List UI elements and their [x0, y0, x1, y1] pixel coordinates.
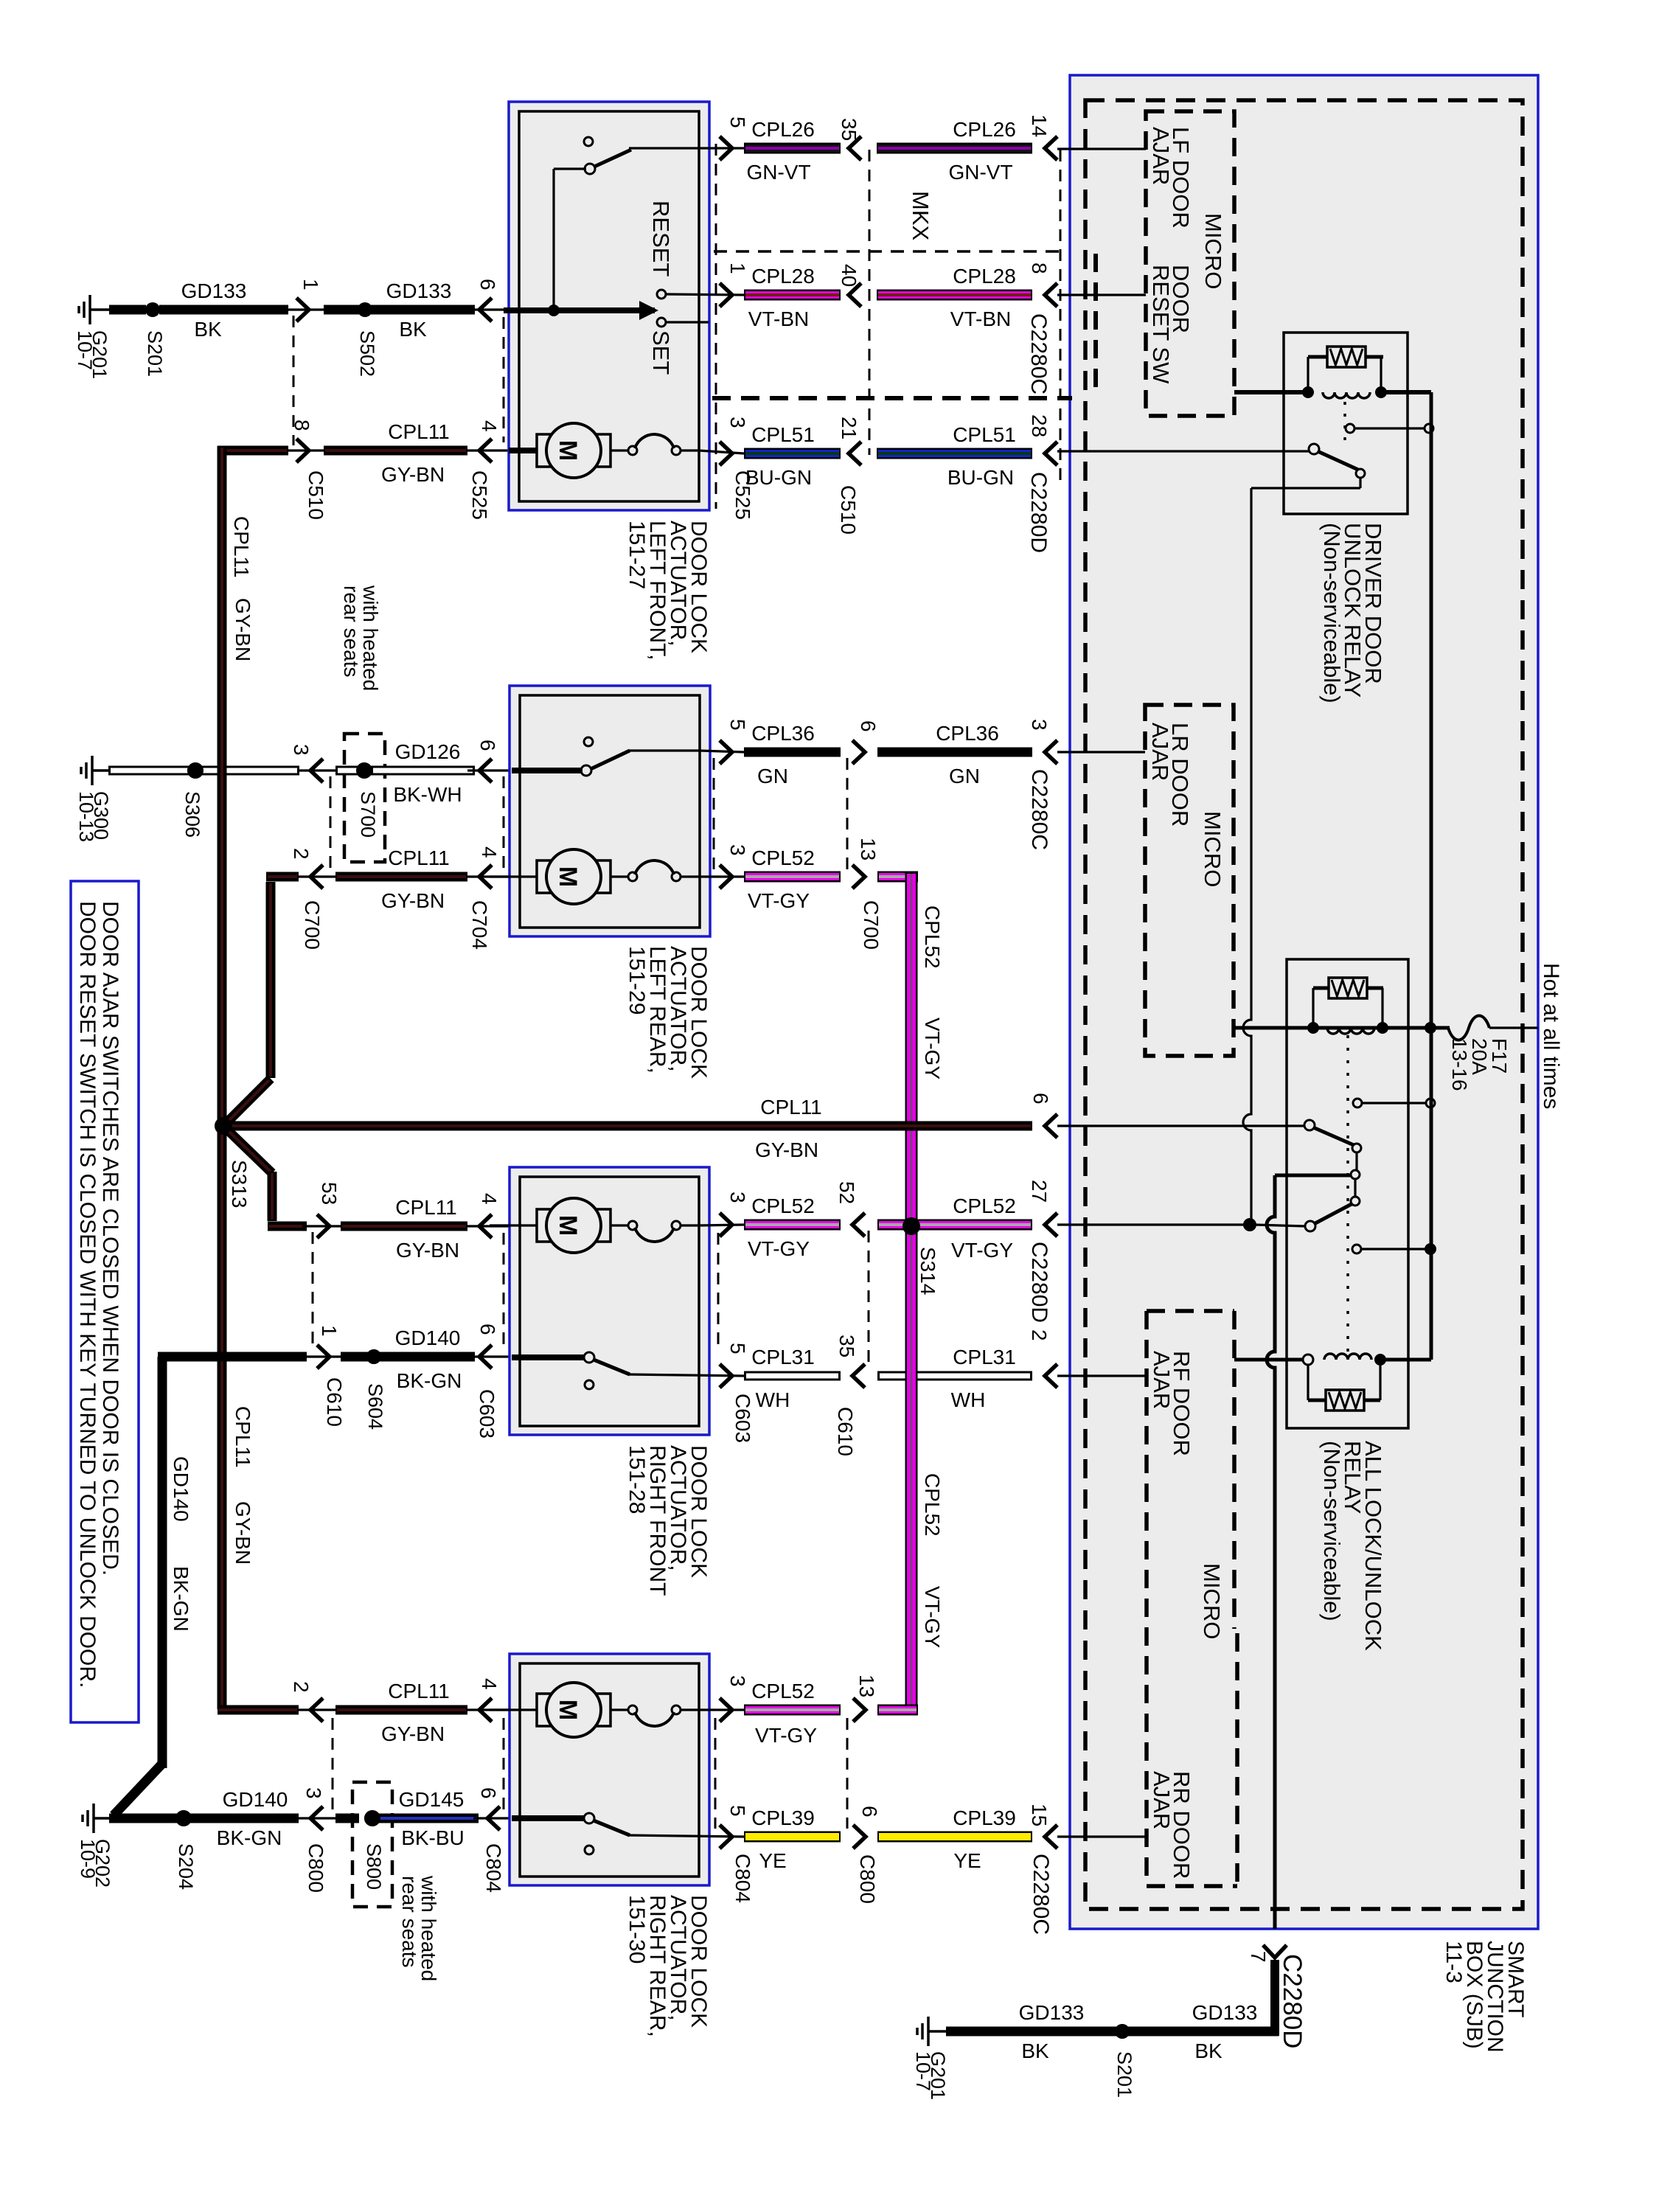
- micro box RF DOOR AJAR: [1147, 1309, 1234, 1313]
- wire CPL31 WH from RF actuator: [720, 1364, 732, 1388]
- wire CPL11 GY-BN main to SJB: [228, 1121, 1032, 1131]
- svg-text:MICRO: MICRO: [1200, 811, 1225, 887]
- svg-text:5: 5: [726, 1805, 749, 1817]
- splice S201 bottom: [1115, 2024, 1130, 2039]
- svg-text:VT-GY: VT-GY: [921, 1018, 944, 1079]
- connector dashed C700 left: [330, 776, 332, 872]
- svg-text:C804: C804: [482, 1843, 505, 1893]
- svg-text:27: 27: [1028, 1180, 1051, 1203]
- svg-text:C804: C804: [731, 1854, 754, 1903]
- svg-text:C800: C800: [305, 1843, 327, 1893]
- svg-text:BK: BK: [194, 318, 222, 341]
- ground G202: [92, 1804, 95, 1833]
- all relay NO tie bar circle: [1351, 1170, 1360, 1179]
- svg-text:15: 15: [1028, 1804, 1051, 1826]
- all relay lower coil terminal left: [1303, 1354, 1313, 1365]
- connector dashed line C2280C left of SJB: [1060, 150, 1062, 487]
- driver relay coil feed wire from micro: [1234, 390, 1311, 394]
- connector dashed C603 right: [717, 1233, 720, 1352]
- svg-text:C510: C510: [305, 470, 327, 520]
- svg-text:40: 40: [838, 264, 860, 287]
- svg-text:151-27: 151-27: [625, 521, 649, 589]
- svg-text:1: 1: [299, 279, 322, 291]
- driver relay NC contact: [1346, 424, 1354, 433]
- svg-text:GD145: GD145: [399, 1788, 465, 1811]
- wire GD133 BK S201 to S502: [159, 305, 288, 315]
- splice S700 dot overlay: [356, 762, 372, 779]
- svg-text:GN-VT: GN-VT: [746, 161, 810, 184]
- svg-text:CPL28: CPL28: [953, 265, 1016, 288]
- svg-text:C2280C: C2280C: [1029, 1854, 1053, 1935]
- driver relay NO contact: [1356, 469, 1365, 478]
- svg-text:SET: SET: [648, 330, 674, 375]
- pin 7 arrow out of SJB: [1263, 1945, 1287, 1958]
- svg-text:VT-GY: VT-GY: [748, 1237, 810, 1260]
- svg-text:DOOR AJAR SWITCHES ARE CLOSED: DOOR AJAR SWITCHES ARE CLOSED WHEN DOOR …: [98, 901, 122, 1576]
- micro box LR DOOR AJAR: [1145, 705, 1234, 1056]
- dashed separator below CPL26 row: [714, 250, 1062, 253]
- wire CPL26 GN-VT segment 1: [720, 136, 732, 160]
- pin connector arrow 2 act4: [298, 1708, 339, 1711]
- driver relay actuation dotted link: [1343, 402, 1346, 442]
- splice box S800: [352, 1782, 392, 1907]
- all relay switch A blade: [1313, 1127, 1354, 1145]
- svg-text:BK-GN: BK-GN: [170, 1566, 192, 1632]
- svg-text:2: 2: [290, 1681, 313, 1693]
- svg-text:BK-BU: BK-BU: [401, 1826, 465, 1849]
- connector dashed C510 left: [293, 316, 295, 445]
- connector dashed C700 right: [846, 758, 849, 872]
- door lock actuator right front box: [509, 1167, 709, 1435]
- LR actuator motor: [490, 875, 539, 877]
- wire CPL11 GY-BN to actuator 3: [341, 1222, 467, 1231]
- vertical CPL11 GY-BN bus: [218, 446, 227, 1709]
- svg-text:S604: S604: [364, 1383, 386, 1430]
- svg-text:M: M: [554, 440, 582, 461]
- wire CPL11 GY-BN corner from vertical bus: [218, 446, 288, 456]
- wire GD133 BK S502 to actuator: [324, 305, 360, 315]
- svg-text:(Non-serviceable): (Non-serviceable): [1319, 1441, 1345, 1621]
- junction F17 on hot bus: [1425, 1022, 1436, 1034]
- svg-text:CPL11: CPL11: [388, 846, 450, 869]
- connector dashed C804 left: [503, 1718, 505, 1812]
- wire CPL36 GN segment 1: [720, 740, 732, 764]
- svg-text:8: 8: [291, 420, 313, 431]
- svg-text:C610: C610: [834, 1407, 857, 1456]
- driver relay NC line to hot bus: [1355, 427, 1425, 429]
- connector dashed C704 right: [713, 758, 715, 870]
- svg-text:GY-BN: GY-BN: [232, 598, 254, 661]
- pin connector arrow 4 act4: [467, 1708, 512, 1711]
- svg-text:C603: C603: [731, 1394, 754, 1443]
- junction driver output to CPL52: [1243, 1218, 1256, 1231]
- wire CPL52 bus over CPL31 crossing: [905, 1367, 918, 1385]
- wire GD126 BK-WH S700 to actuator: [335, 766, 359, 776]
- all relay lower coil to hot bus: [1380, 1358, 1431, 1362]
- wire CPL52 VT-GY from LR actuator: [720, 865, 732, 888]
- svg-text:6: 6: [1029, 1093, 1052, 1105]
- svg-text:VT-GY: VT-GY: [951, 1239, 1013, 1262]
- splice box S700: [344, 734, 385, 862]
- wire GD133 BK ground to S201: [109, 305, 146, 315]
- ground G201 left: [88, 295, 91, 324]
- svg-text:YE: YE: [759, 1849, 786, 1872]
- splice S201: [145, 302, 160, 317]
- thin line CPL52 into SJB to relay: [1057, 1223, 1245, 1225]
- wire GD126 inside actuator 2: [512, 768, 582, 773]
- svg-text:BK-WH: BK-WH: [393, 783, 462, 806]
- svg-text:6: 6: [477, 1787, 500, 1799]
- svg-text:CPL31: CPL31: [751, 1346, 815, 1368]
- wire CPL11 GY-BN to actuator 4: [335, 1705, 467, 1715]
- RR door ajar switch: [585, 1846, 594, 1854]
- driver relay output wire down to CPL52 node: [1359, 478, 1361, 488]
- svg-text:3: 3: [290, 744, 313, 756]
- splice S700 dot: [356, 762, 372, 779]
- pin connector arrow 1 GD140: [302, 1355, 343, 1357]
- wire CPL39 YE to SJB: [853, 1825, 866, 1848]
- connector dashed C804 right: [714, 1718, 717, 1829]
- diagonal wire S313 to actuator2 branch: [228, 1079, 271, 1121]
- all relay top coil junction left: [1307, 1022, 1319, 1034]
- pin connector arrow 6 act4: [473, 1817, 512, 1819]
- RF actuator motor: [490, 1224, 539, 1226]
- svg-text:2: 2: [290, 848, 313, 860]
- splice S306: [187, 762, 204, 779]
- driver relay coil junction left: [1302, 386, 1314, 398]
- splice S313: [215, 1117, 232, 1135]
- svg-text:C2280D: C2280D: [1026, 472, 1051, 553]
- svg-text:CPL11: CPL11: [388, 1680, 450, 1703]
- svg-text:52: 52: [835, 1181, 858, 1204]
- svg-text:10-7: 10-7: [912, 2051, 934, 2091]
- svg-text:S201: S201: [144, 330, 166, 377]
- connector dashed C800 right: [846, 1718, 849, 1829]
- RF door ajar switch: [585, 1380, 594, 1389]
- connector dashed C610 left: [312, 1232, 314, 1351]
- svg-text:10-13: 10-13: [75, 791, 97, 842]
- svg-text:13: 13: [857, 838, 880, 860]
- driver relay common contact: [1309, 444, 1319, 454]
- wire CPL51 BU-GN segment 1: [720, 442, 732, 465]
- svg-text:GD126: GD126: [395, 740, 461, 763]
- svg-text:4: 4: [478, 420, 501, 432]
- wire CPL26 GN-VT segment 2: [849, 136, 861, 160]
- svg-text:GD140: GD140: [223, 1788, 288, 1811]
- thin feed CPL31 to RF ajar micro: [1057, 1374, 1147, 1377]
- wire CPL36 GN segment 2: [852, 740, 865, 764]
- svg-text:GY-BN: GY-BN: [396, 1239, 459, 1262]
- svg-text:CPL39: CPL39: [953, 1806, 1016, 1829]
- thin line CPL11 into SJB to relay: [1057, 1124, 1305, 1127]
- connector dashed line C525 right of LF actuator: [715, 144, 717, 509]
- wire GD126 BK-WH ground to S306: [108, 766, 196, 776]
- wire CPL28 VT-BN segment 2: [849, 283, 861, 307]
- wire GD140 BK-GN S604 to actuator 3: [341, 1352, 475, 1362]
- svg-text:C510: C510: [837, 485, 860, 535]
- wire CPL11 bus over GD126 crossing: [218, 762, 227, 779]
- connector dashed C610 right: [868, 1231, 870, 1370]
- svg-text:VT-GY: VT-GY: [921, 1586, 944, 1648]
- svg-text:GY-BN: GY-BN: [381, 889, 445, 912]
- connector dashed C525 left: [503, 317, 505, 442]
- micro box RR DOOR AJAR: [1235, 1633, 1239, 1886]
- svg-text:53: 53: [318, 1182, 341, 1205]
- svg-text:5: 5: [726, 719, 749, 731]
- pin connector arrow 4 act2: [467, 875, 512, 877]
- thin feed CPL26 to LF ajar micro: [1057, 147, 1146, 150]
- svg-text:GD133: GD133: [1192, 2001, 1258, 2024]
- svg-text:CPL52: CPL52: [751, 1194, 815, 1217]
- svg-text:6: 6: [476, 279, 499, 291]
- wire GD133 BK from pin 7: [1270, 1960, 1279, 2036]
- wire CPL11 GY-BN to pin 53: [268, 1222, 307, 1231]
- svg-text:C610: C610: [323, 1377, 346, 1427]
- all relay lower coil terminal right: [1374, 1354, 1386, 1366]
- junction inside actuator 1: [548, 305, 560, 316]
- svg-text:VT-BN: VT-BN: [748, 307, 809, 330]
- svg-text:CPL52: CPL52: [921, 1473, 944, 1537]
- svg-text:2: 2: [1028, 1329, 1051, 1341]
- all relay switch B NO contact: [1352, 1245, 1361, 1253]
- svg-text:3: 3: [726, 1192, 749, 1203]
- svg-text:WH: WH: [951, 1388, 986, 1411]
- svg-text:S502: S502: [356, 330, 378, 377]
- all relay top coil: [1327, 1028, 1374, 1034]
- pin connector arrow 8: [288, 449, 324, 451]
- svg-text:CPL11: CPL11: [760, 1096, 822, 1119]
- svg-text:CPL11: CPL11: [395, 1196, 457, 1219]
- svg-text:S800: S800: [363, 1843, 385, 1890]
- svg-text:C525: C525: [468, 470, 491, 520]
- svg-text:3: 3: [1028, 719, 1051, 731]
- all relay switch B NC contact: [1351, 1197, 1360, 1206]
- svg-text:S306: S306: [181, 791, 204, 838]
- svg-text:M: M: [554, 1700, 582, 1720]
- svg-text:S204: S204: [175, 1843, 197, 1890]
- pin connector arrow 4: [467, 449, 512, 451]
- svg-text:10-7: 10-7: [74, 330, 96, 370]
- wire CPL51 BU-GN segment 2: [849, 442, 861, 465]
- svg-text:S201: S201: [1113, 2051, 1135, 2098]
- svg-text:35: 35: [838, 118, 860, 141]
- wire GD140 BK-GN to pin 1: [158, 1352, 307, 1362]
- wire CPL28 VT-BN segment 1: [720, 283, 732, 307]
- svg-text:13: 13: [855, 1674, 878, 1697]
- svg-text:6: 6: [476, 740, 499, 751]
- all relay lower resistor: [1307, 1365, 1309, 1400]
- pin connector arrow 1: [288, 308, 324, 310]
- svg-text:DOOR RESET SWITCH IS CLOSED WI: DOOR RESET SWITCH IS CLOSED WITH KEY TUR…: [75, 901, 100, 1688]
- svg-text:CPL52: CPL52: [751, 846, 815, 869]
- arrowhead to reset/set contacts: [639, 301, 658, 320]
- wire CPL11 GY-BN to actuator 2: [335, 872, 467, 882]
- svg-text:CPL26: CPL26: [751, 118, 815, 141]
- pin connector arrow 6: [467, 308, 512, 310]
- svg-text:CPL52: CPL52: [921, 905, 944, 969]
- svg-text:(Non-serviceable): (Non-serviceable): [1319, 523, 1345, 703]
- driver door unlock relay box: [1284, 333, 1408, 514]
- wire GD140 inside actuator 3: [512, 1354, 584, 1360]
- svg-text:CPL52: CPL52: [953, 1194, 1016, 1217]
- all relay switch B common contact (CPL52): [1305, 1221, 1315, 1231]
- svg-text:S700: S700: [357, 791, 379, 838]
- splice S604: [366, 1349, 381, 1364]
- pin connector arrow 3: [298, 769, 339, 771]
- svg-text:VT-GY: VT-GY: [748, 889, 810, 912]
- svg-text:CPL52: CPL52: [751, 1680, 815, 1703]
- splice S204: [175, 1810, 192, 1826]
- wire CPL52 corner to vertical bus: [852, 865, 865, 888]
- pin connector arrow 53: [302, 1225, 343, 1227]
- svg-text:3: 3: [302, 1787, 325, 1799]
- svg-text:4: 4: [478, 1193, 501, 1205]
- wire CPL52 across S314 to SJB: [852, 1213, 865, 1237]
- svg-text:3: 3: [726, 417, 749, 428]
- pin connector arrow 6 act3: [467, 1355, 512, 1357]
- connector dashed C800 left: [332, 1718, 334, 1812]
- LR door ajar switch: [584, 737, 593, 746]
- wire GD145 BK-BU S800 to actuator 4: [335, 1814, 359, 1823]
- svg-text:BK-GN: BK-GN: [217, 1826, 282, 1849]
- svg-text:7: 7: [1247, 1951, 1270, 1963]
- all relay switch B blade: [1314, 1204, 1352, 1224]
- svg-text:C700: C700: [301, 900, 324, 950]
- all relay actuation dotted link: [1346, 1035, 1349, 1355]
- wire GD126 BK-WH S306 to pin 3: [189, 766, 299, 776]
- driver relay blade: [1318, 451, 1358, 470]
- svg-text:5: 5: [726, 116, 749, 128]
- connector dashed line MKX middle C510: [869, 150, 871, 455]
- svg-text:21: 21: [838, 417, 860, 439]
- svg-text:VT-BN: VT-BN: [950, 307, 1011, 330]
- RR actuator motor: [490, 1708, 539, 1711]
- svg-text:C800: C800: [856, 1854, 879, 1904]
- svg-text:151-30: 151-30: [625, 1895, 649, 1964]
- thin feed CPL28 to door reset micro: [1057, 293, 1146, 296]
- wire GD140 BK-GN ground run: [109, 1814, 186, 1823]
- svg-text:C2280C: C2280C: [1027, 769, 1051, 850]
- svg-text:Hot at all times: Hot at all times: [1539, 963, 1563, 1109]
- pin connector arrow 2: [298, 875, 339, 877]
- hot feed F17 wire to all relay coil: [1234, 1026, 1450, 1030]
- svg-text:GD133: GD133: [181, 279, 247, 302]
- svg-text:5: 5: [726, 1343, 749, 1354]
- svg-text:VT-GY: VT-GY: [755, 1724, 817, 1747]
- splice S604 dot overlay: [366, 1349, 381, 1364]
- splice S502: [358, 302, 372, 317]
- svg-text:AJAR: AJAR: [1148, 127, 1174, 185]
- svg-text:M: M: [554, 1215, 582, 1236]
- svg-text:C2280D: C2280D: [1027, 1242, 1051, 1323]
- diagonal wire S313 to actuator3 branch: [228, 1130, 272, 1173]
- driver relay coil junction right: [1375, 386, 1387, 398]
- splice S314: [902, 1217, 920, 1235]
- thin feed CPL51 to driver relay common: [1057, 450, 1311, 452]
- svg-text:8: 8: [1028, 262, 1051, 274]
- svg-text:4: 4: [478, 846, 501, 858]
- door lock actuator left front box: [509, 102, 709, 510]
- svg-text:GD140: GD140: [170, 1456, 192, 1522]
- wire CPL11 GY-BN to actuator 1: [324, 446, 467, 456]
- svg-text:CPL11: CPL11: [232, 1406, 254, 1468]
- svg-text:AJAR: AJAR: [1149, 1351, 1175, 1409]
- svg-text:CPL26: CPL26: [953, 118, 1016, 141]
- svg-text:GY-BN: GY-BN: [381, 463, 445, 486]
- all relay lower coil feed from RF micro: [1234, 1358, 1308, 1362]
- splice S306 dot overlay: [187, 762, 204, 779]
- junction switch B NO on hot bus: [1425, 1243, 1436, 1255]
- all relay top coil junction right: [1377, 1022, 1388, 1034]
- pin connector arrow 3 act4: [298, 1817, 347, 1819]
- connector dashed C603 left: [503, 1233, 505, 1349]
- RESET contact: [657, 290, 666, 299]
- all relay switch A NC line to hot bus: [1363, 1102, 1426, 1104]
- svg-text:BU-GN: BU-GN: [745, 466, 812, 489]
- svg-text:CPL28: CPL28: [751, 265, 815, 288]
- svg-text:14: 14: [1028, 114, 1051, 137]
- svg-text:rear seats: rear seats: [340, 585, 363, 678]
- micro box LF DOOR AJAR / DOOR RESET SW: [1146, 111, 1234, 416]
- thin feed CPL36 to LR ajar micro: [1057, 751, 1145, 753]
- svg-text:WH: WH: [756, 1388, 790, 1411]
- all relay switch B NO line to hot bus: [1362, 1248, 1430, 1250]
- svg-text:4: 4: [478, 1678, 501, 1690]
- door lock actuator left rear box: [509, 686, 710, 936]
- fuse F17 20A: [1448, 1016, 1489, 1040]
- all relay top resistor: [1312, 988, 1314, 1028]
- splice S800 dot: [364, 1810, 380, 1826]
- door lock actuator right rear box: [509, 1654, 709, 1885]
- all relay switch A NC contact: [1353, 1099, 1362, 1107]
- note box door ajar switches: [71, 881, 139, 1722]
- svg-text:35: 35: [835, 1335, 858, 1357]
- splice S201 bottom dot overlay: [1115, 2024, 1130, 2039]
- svg-text:BK: BK: [399, 318, 427, 341]
- svg-text:MKX: MKX: [908, 191, 933, 241]
- svg-text:S313: S313: [228, 1160, 251, 1208]
- svg-text:CPL11: CPL11: [388, 420, 450, 443]
- svg-text:6: 6: [858, 1806, 881, 1818]
- svg-text:RESET: RESET: [648, 201, 674, 276]
- smart junction box SJB: [1070, 75, 1538, 1929]
- svg-text:M: M: [554, 866, 582, 887]
- hot bus vertical: [1430, 392, 1433, 1360]
- svg-text:10-9: 10-9: [77, 1839, 99, 1879]
- svg-text:S314: S314: [917, 1247, 939, 1295]
- svg-text:GY-BN: GY-BN: [232, 1501, 254, 1565]
- svg-text:151-28: 151-28: [625, 1445, 649, 1514]
- svg-text:GY-BN: GY-BN: [755, 1138, 818, 1161]
- pin connector arrow 4 act3: [467, 1225, 512, 1227]
- all lock/unlock relay box: [1287, 959, 1408, 1428]
- svg-text:CPL51: CPL51: [953, 423, 1016, 446]
- svg-text:CPL51: CPL51: [751, 423, 815, 446]
- wire CPL11 GY-BN branch corner to actuator 2: [266, 882, 276, 1078]
- svg-text:rear seats: rear seats: [398, 1876, 421, 1968]
- ground G300: [91, 756, 94, 785]
- svg-text:YE: YE: [953, 1849, 981, 1872]
- svg-text:MICRO: MICRO: [1199, 1563, 1225, 1639]
- wire CPL52 bottom corner to pin 13: [877, 1705, 918, 1716]
- svg-text:CPL11: CPL11: [230, 516, 253, 578]
- LF switch common wire: [554, 167, 586, 170]
- splice S204 dot overlay: [175, 1810, 192, 1826]
- connector dashed C704 left: [503, 776, 505, 870]
- all relay switch A NO contact: [1352, 1144, 1361, 1152]
- driver relay coil to hot bus: [1381, 390, 1431, 394]
- svg-text:1: 1: [318, 1325, 341, 1337]
